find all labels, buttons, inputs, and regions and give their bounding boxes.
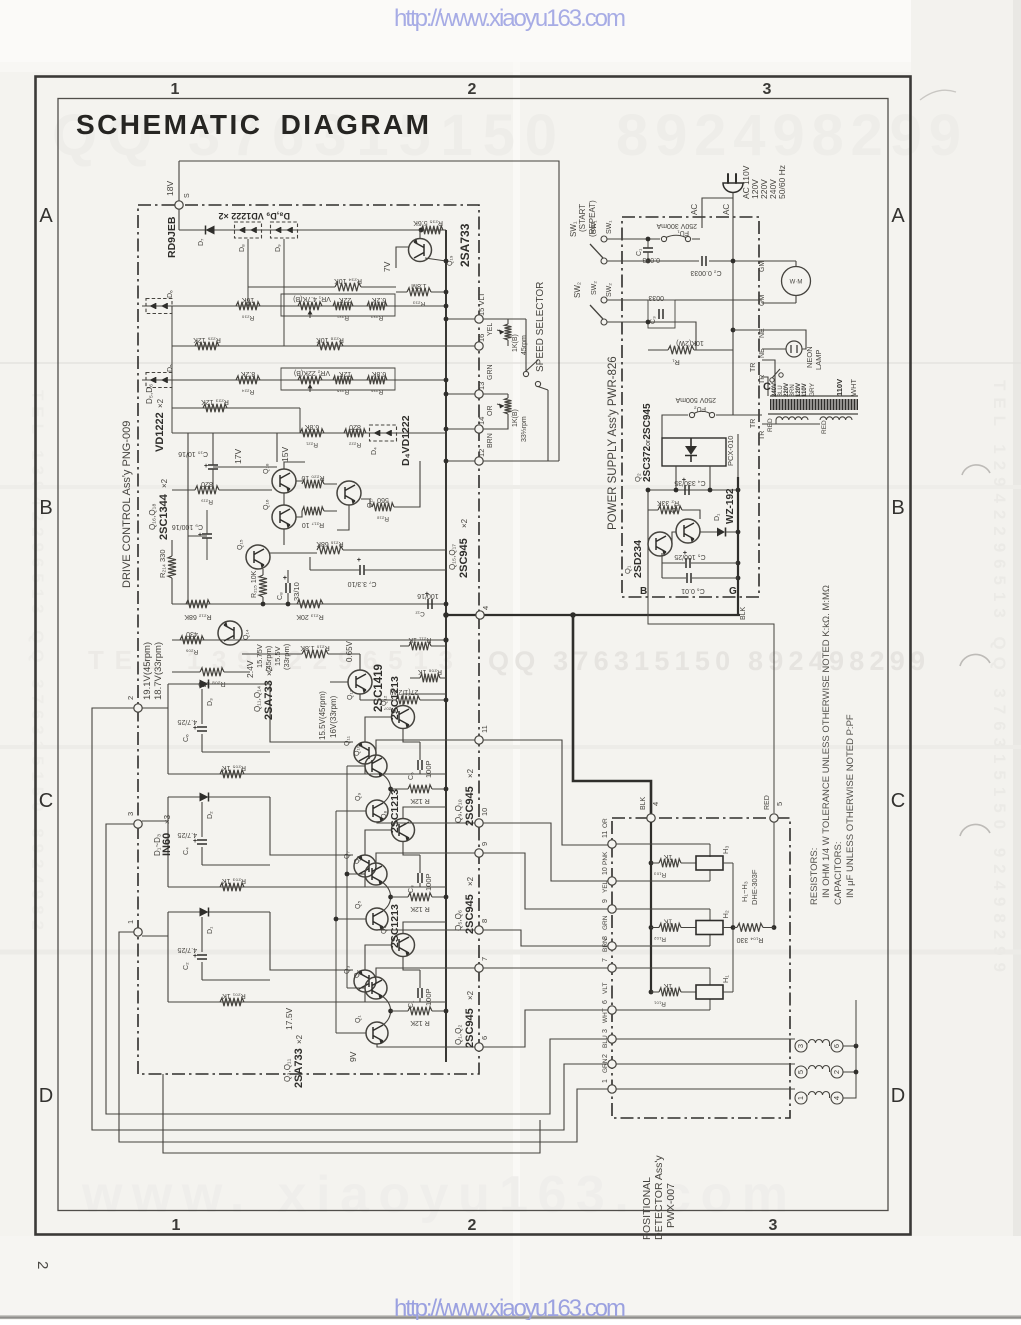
terminal 4 BLK detector — [647, 814, 655, 822]
zener D1 WZ-192 — [717, 528, 725, 537]
terminal 1 left — [134, 928, 142, 936]
terminal 15 VLT — [475, 315, 483, 323]
svg-text:6: 6 — [480, 1036, 489, 1040]
svg-text:SPEED SELECTOR: SPEED SELECTOR — [535, 282, 546, 372]
svg-text:C₂ 0.0033: C₂ 0.0033 — [690, 269, 721, 276]
resistor R224 8.2K — [236, 376, 260, 384]
svg-text:SW₁: SW₁ — [606, 220, 613, 234]
svg-text:D₆: D₆ — [167, 290, 174, 298]
svg-text:http://www.xiaoyu163.com: http://www.xiaoyu163.com — [394, 5, 626, 32]
svg-text:R₂₀₃ 1K: R₂₀₃ 1K — [222, 877, 246, 884]
svg-text:G: G — [729, 586, 737, 597]
svg-text:R₂₂₁: R₂₂₁ — [305, 441, 318, 448]
svg-text:110V: 110V — [835, 379, 844, 396]
transistor Q₆ 2SC945 — [365, 863, 387, 885]
svg-text:D₉: D₉ — [275, 244, 282, 252]
svg-text:PNK: PNK — [602, 851, 609, 865]
svg-text:H₂: H₂ — [721, 910, 730, 918]
svg-text:A: A — [891, 205, 905, 227]
svg-text:6.8K: 6.8K — [371, 370, 386, 377]
svg-text:16V(33rpm): 16V(33rpm) — [329, 695, 338, 738]
svg-text:2SC1213: 2SC1213 — [389, 789, 401, 833]
svg-text:R₂₂₄: R₂₂₄ — [241, 388, 254, 395]
hall vertical links — [709, 844, 711, 1010]
wire 9 to YEL — [483, 853, 608, 909]
svg-text:9: 9 — [602, 899, 609, 903]
wire row 640 — [172, 639, 446, 641]
svg-text:1: 1 — [172, 1217, 181, 1234]
svg-text:6: 6 — [832, 1044, 841, 1048]
svg-text:GRN: GRN — [602, 1058, 609, 1073]
svg-text:GRN: GRN — [487, 364, 494, 380]
svg-text:C: C — [763, 381, 771, 393]
diode D₂ — [200, 793, 209, 802]
motor W-M — [782, 267, 811, 296]
svg-text:+: + — [193, 953, 197, 960]
terminal 10 PNK detector — [608, 877, 616, 885]
svg-text:D: D — [891, 1085, 905, 1107]
svg-text:C: C — [39, 790, 53, 812]
svg-text:GM: GM — [759, 261, 766, 272]
svg-text:Q₅: Q₅ — [355, 901, 362, 909]
hall right pins bus — [723, 863, 733, 992]
svg-text:Q₂: Q₂ — [633, 473, 642, 482]
connector right bus — [843, 1046, 856, 1098]
svg-text:R₂₁₈: R₂₁₈ — [377, 515, 389, 522]
svg-text:6.2K: 6.2K — [371, 296, 386, 303]
svg-text:2: 2 — [602, 1054, 609, 1058]
svg-text:SW₂: SW₂ — [591, 281, 598, 295]
svg-text:3: 3 — [763, 81, 772, 98]
capacitor C1 0.033 — [643, 248, 653, 252]
thick wire to terminal 4 and power supply — [446, 614, 740, 616]
svg-text:W·M: W·M — [790, 280, 803, 286]
svg-text:+: + — [193, 838, 197, 845]
svg-text:11: 11 — [602, 831, 609, 838]
routing wire shield — [163, 1074, 540, 1153]
svg-text:R 12K: R 12K — [410, 797, 430, 804]
svg-text:16K: 16K — [241, 296, 254, 303]
svg-text:VD1222: VD1222 — [154, 412, 166, 452]
svg-text:R₁₀₁: R₁₀₁ — [653, 1000, 666, 1007]
resistor R223 12K — [203, 404, 227, 412]
resistor R₁₀₁ 1K — [659, 988, 681, 996]
svg-text:100P: 100P — [424, 988, 433, 1006]
wire neon row — [733, 330, 806, 349]
wires stage 1 transistors — [365, 694, 446, 774]
resistor R₂₀₃ 1K — [220, 883, 244, 891]
svg-text:IN OHM 1/4 W TOLERANCE UNLESS: IN OHM 1/4 W TOLERANCE UNLESS OTHERWISE … — [821, 585, 832, 898]
terminal S 18V — [175, 201, 183, 209]
wire row1 — [172, 305, 446, 307]
svg-text:B: B — [39, 497, 52, 519]
svg-text:820: 820 — [201, 480, 213, 487]
capacitor C12 100/16 — [428, 599, 432, 609]
capacitor C₅ 100P — [418, 760, 422, 770]
svg-text:SW₂: SW₂ — [606, 283, 613, 297]
svg-text:+: + — [204, 463, 208, 470]
svg-text:WZ-192: WZ-192 — [725, 488, 736, 524]
svg-text:NE: NE — [759, 348, 766, 358]
svg-text:3: 3 — [769, 1217, 778, 1234]
thick BLK bus inside detector — [650, 822, 652, 992]
transistor Q16 2SC1344 — [272, 505, 296, 529]
terminal 2 BLU detector — [608, 1060, 616, 1068]
svg-text:8.2K: 8.2K — [240, 370, 255, 377]
svg-text:33⅓rpm: 33⅓rpm — [521, 416, 528, 442]
svg-text:×2: ×2 — [466, 876, 475, 886]
wire row3 — [172, 432, 446, 434]
resistor R207 27(1/2W) — [396, 696, 420, 704]
svg-text:D₅: D₅ — [167, 364, 174, 372]
svg-text:Q₃,Q₁₁: Q₃,Q₁₁ — [283, 1058, 292, 1082]
svg-text:TEL 13942296513 QQ 376315150 8: TEL 13942296513 QQ 376315150 8924982 — [28, 390, 47, 930]
svg-text:2SC945: 2SC945 — [464, 786, 476, 826]
ac plug — [723, 183, 743, 193]
svg-text:Q₁₁: Q₁₁ — [344, 735, 351, 746]
base bus 2SC945 pairs — [347, 766, 365, 988]
svg-text:1K: 1K — [663, 982, 672, 989]
wire 11 to OR — [483, 740, 608, 845]
wire 6 to VLT — [483, 1010, 608, 1047]
transistor Q₈ 2SC1213 — [392, 819, 415, 842]
resistor R228 10K — [317, 342, 343, 350]
svg-text:4.7/25: 4.7/25 — [177, 831, 197, 838]
terminal 1 GRN detector — [608, 1085, 616, 1093]
wire S terminal drop — [178, 161, 180, 201]
resistor 12K pair — [408, 785, 432, 793]
transistor Q₅ 2SC945 — [366, 908, 388, 930]
svg-text:R₁: R₁ — [672, 358, 680, 365]
svg-text:TEL 12942296513 QQ 376315150 9: TEL 12942296513 QQ 376315150 92498299 — [990, 380, 1009, 972]
terminal 14 OR — [475, 425, 483, 433]
svg-text:12K: 12K — [338, 370, 351, 377]
wire 10 to PNK — [483, 823, 608, 881]
svg-text:R 12K: R 12K — [410, 905, 430, 912]
svg-text:R₂₁₅ 10K: R₂₁₅ 10K — [251, 570, 258, 598]
svg-text:R₂₃₅ 5.6K: R₂₃₅ 5.6K — [413, 219, 443, 226]
hall element H₁ — [696, 985, 723, 999]
svg-text:R₂₂₆: R₂₂₆ — [370, 388, 383, 395]
svg-text:FU₁: FU₁ — [677, 229, 689, 236]
resistor R2 33K — [658, 506, 682, 514]
svg-text:B: B — [640, 586, 647, 597]
wires stage 2 transistors — [365, 807, 446, 887]
svg-text:R₂₀₅ 1K: R₂₀₅ 1K — [222, 764, 246, 771]
svg-text:GRY: GRY — [809, 382, 816, 397]
svg-text:BLU: BLU — [602, 1035, 609, 1048]
svg-text:×2: ×2 — [460, 518, 469, 528]
terminal 10 — [475, 819, 483, 827]
resistor R₂₀₅ 1K — [220, 770, 244, 778]
svg-text:R₂₂₀ 10: R₂₂₀ 10 — [301, 474, 324, 481]
svg-text:QQ 376315150 892498299: QQ 376315150 892498299 — [488, 646, 925, 676]
resistor R₂₀₁ 1K — [220, 998, 244, 1006]
resistor R212 68K — [186, 600, 210, 608]
svg-text:4.7/25: 4.7/25 — [177, 946, 197, 953]
svg-text:GRN: GRN — [602, 915, 609, 930]
resistor R210 1.8K — [302, 650, 328, 658]
thick branch to detector BLK — [573, 615, 651, 814]
svg-text:2: 2 — [34, 1261, 51, 1269]
resistor 12K pair — [408, 1007, 432, 1015]
transistor Q₁₀ 2SC945 — [365, 755, 387, 777]
wire sw2 row — [607, 300, 762, 350]
wire RED column — [773, 822, 775, 928]
terminal 6 VLT detector — [608, 1006, 616, 1014]
svg-text:Q₉,Q₁₀: Q₉,Q₁₀ — [454, 799, 463, 823]
resistor R226 6.8K — [367, 376, 387, 384]
resistor 12K pair — [408, 893, 432, 901]
main vertical bus — [445, 230, 447, 1062]
resistor R216 68K — [317, 546, 343, 554]
svg-text:15.75V: 15.75V — [255, 644, 264, 668]
diode pack D6 VD1222 — [146, 299, 172, 314]
routing wire drive2 to det2 — [92, 708, 608, 1130]
svg-text:PCX-010: PCX-010 — [726, 436, 735, 466]
routing wire drive3 to det3 — [106, 824, 608, 1114]
svg-text:0033: 0033 — [648, 294, 664, 301]
transistor Q₃ 2SA733 — [354, 970, 376, 992]
switch SW2 — [601, 297, 607, 303]
wires 2SC945 pair — [376, 968, 477, 1047]
resistor R1 10K(2W) — [668, 346, 694, 354]
svg-text:2SA733: 2SA733 — [458, 223, 472, 267]
svg-text:1K: 1K — [663, 918, 672, 925]
svg-text:13: 13 — [477, 382, 486, 390]
transistor Q₄ 2SC1213 — [392, 934, 415, 957]
svg-text:1K(B): 1K(B) — [512, 409, 519, 427]
svg-text:2: 2 — [468, 1217, 477, 1234]
capacitor C9 100/16 — [202, 534, 212, 538]
svg-text:BLK: BLK — [740, 606, 747, 620]
transistor Q17 2SC945 — [337, 481, 361, 505]
selector switch contacts — [523, 371, 528, 376]
capacitor C10 10/16 — [208, 465, 218, 469]
capacitor C₃ 100P — [418, 873, 422, 883]
svg-text:110V: 110V — [802, 383, 808, 397]
diode pack D9 VD1222 — [271, 222, 298, 238]
switch SW1 — [601, 236, 607, 242]
svg-text:R₂₀₉: R₂₀₉ — [185, 648, 198, 655]
resistor R229 12K — [195, 342, 219, 350]
svg-text:NEON: NEON — [805, 346, 814, 368]
svg-text:2: 2 — [832, 1070, 841, 1074]
svg-text:3: 3 — [602, 1029, 609, 1033]
svg-text:C₅ 100/25: C₅ 100/25 — [674, 553, 705, 560]
svg-text:S: S — [184, 193, 191, 198]
diode D₃ — [200, 680, 209, 689]
svg-text:D₈: D₈ — [239, 244, 246, 252]
connector pins 1 4 — [795, 1092, 807, 1104]
wires TR to transformer — [762, 360, 775, 396]
svg-text:C₈: C₈ — [277, 592, 284, 600]
svg-text:R₂₁₂ 68K: R₂₁₂ 68K — [184, 613, 212, 620]
drive control assembly box PNG-009 — [138, 205, 479, 1074]
svg-text:IN60: IN60 — [161, 833, 173, 856]
connector coil — [809, 1092, 830, 1096]
svg-text:NE: NE — [759, 328, 766, 338]
svg-text:D₃: D₃ — [207, 698, 214, 706]
svg-text:POWER SUPPLY Assʹy PWR-826: POWER SUPPLY Assʹy PWR-826 — [607, 356, 619, 530]
terminal 8 — [475, 926, 483, 934]
svg-text:4.7/25: 4.7/25 — [177, 718, 197, 725]
terminal 8 GRN detector — [608, 942, 616, 950]
wires 2SC945 pair — [376, 853, 477, 930]
inner border frame — [58, 99, 888, 1211]
svg-text:9V: 9V — [348, 1051, 358, 1062]
svg-text:A: A — [39, 205, 53, 227]
terminal 3 left — [134, 820, 142, 828]
svg-text:VLT: VLT — [602, 983, 609, 994]
svg-text:1: 1 — [796, 1096, 805, 1100]
svg-text:2SC945: 2SC945 — [464, 1008, 476, 1048]
diode pack D4 VD1222 — [370, 425, 397, 441]
svg-text:C₂: C₂ — [183, 962, 190, 970]
svg-text:100P: 100P — [424, 873, 433, 891]
trimmer VR2 22K(B) — [298, 376, 322, 384]
svg-text:2.4V: 2.4V — [245, 660, 255, 678]
terminal 3 WHT detector — [608, 1035, 616, 1043]
resistor R217 10 — [302, 507, 324, 515]
svg-text:9: 9 — [480, 842, 489, 846]
resistor R209 430 — [180, 636, 204, 644]
svg-text:10: 10 — [602, 867, 609, 875]
svg-text:560: 560 — [377, 496, 389, 503]
positional detector assembly box PWX-007 — [612, 818, 790, 1118]
svg-text:1.8M: 1.8M — [411, 282, 427, 289]
wire 7 to BRN — [483, 967, 608, 969]
svg-text:11: 11 — [480, 725, 489, 733]
svg-text:+: + — [357, 557, 361, 564]
svg-text:18.7V(33rpm): 18.7V(33rpm) — [153, 642, 164, 700]
svg-text:C₅: C₅ — [408, 772, 415, 780]
connector row wires — [616, 1039, 795, 1089]
svg-text:C₃: C₃ — [408, 885, 415, 893]
terminal 2 left — [134, 704, 142, 712]
resistor R230 16K — [236, 302, 260, 310]
svg-text:Q₁₃: Q₁₃ — [347, 689, 354, 700]
svg-text:2SC1213: 2SC1213 — [389, 904, 401, 948]
wire 18V top rail — [179, 161, 559, 461]
rectifier PCX-010 — [662, 438, 726, 466]
svg-text:15.5V: 15.5V — [273, 646, 282, 666]
wires below rectifier — [648, 434, 738, 597]
svg-text:22K: 22K — [338, 296, 351, 303]
svg-text:Q₁₆: Q₁₆ — [263, 499, 270, 510]
svg-text:R₂₃₀: R₂₃₀ — [241, 314, 254, 321]
svg-text:×3: ×3 — [163, 814, 172, 824]
svg-text:R₁₀₂: R₁₀₂ — [653, 936, 666, 943]
svg-text:14: 14 — [477, 417, 486, 425]
svg-text:50/60 Hz: 50/60 Hz — [777, 165, 787, 199]
svg-text:4: 4 — [651, 802, 660, 806]
svg-text:RED: RED — [764, 795, 771, 810]
svg-text:SCHEMATIC DIAGRAM: SCHEMATIC DIAGRAM — [76, 109, 430, 140]
svg-text:IN μF UNLESS OTHERWISE NOTED P: IN μF UNLESS OTHERWISE NOTED P:PF — [845, 714, 856, 898]
wire B to RED 5 — [648, 597, 774, 813]
terminal 11 — [475, 736, 483, 744]
connector pins 5 2 — [795, 1066, 807, 1078]
capacitor C8 33/10 — [286, 583, 290, 593]
svg-text:15 VLT: 15 VLT — [477, 292, 486, 316]
svg-text:RED: RED — [821, 420, 828, 434]
resistor R206 1K right — [420, 674, 440, 682]
transistor Q19 2SA733 — [409, 239, 432, 262]
svg-text:Q₅,Q₆: Q₅,Q₆ — [454, 910, 463, 931]
svg-text:1K(B): 1K(B) — [512, 334, 519, 352]
oscillator stage 3 wires — [142, 912, 270, 1002]
svg-text:3: 3 — [126, 812, 135, 816]
capacitor C5 100/25 — [686, 558, 690, 568]
svg-text:SW₁: SW₁ — [569, 221, 578, 237]
svg-text:PWX-007: PWX-007 — [665, 1183, 677, 1228]
svg-text:VR₁ 4.7K(B): VR₁ 4.7K(B) — [293, 295, 331, 302]
wire to terminal 13 — [446, 393, 475, 395]
svg-text:1: 1 — [126, 920, 135, 924]
svg-text:3: 3 — [796, 1044, 805, 1048]
wire row 16 with R229 12K and R226 10K — [172, 345, 475, 347]
svg-text:7V: 7V — [382, 261, 392, 272]
transistor Q1 2SD234 — [648, 532, 672, 556]
svg-text:2SC945: 2SC945 — [458, 538, 470, 578]
diode D₁ — [200, 908, 209, 917]
connector pins 3 6 — [795, 1040, 807, 1052]
wire row R223 — [172, 407, 300, 409]
svg-text:C₁: C₁ — [636, 248, 643, 256]
svg-text:17.5V: 17.5V — [284, 1007, 294, 1030]
svg-text:RD9JEB: RD9JEB — [166, 216, 178, 258]
svg-text:×2: ×2 — [156, 398, 165, 408]
svg-text:D₂: D₂ — [207, 811, 214, 819]
svg-text:×2: ×2 — [466, 990, 475, 1000]
svg-text:Q₁₆,Q₁₈: Q₁₆,Q₁₈ — [148, 503, 157, 530]
svg-text:R₂₁₆ 68K: R₂₁₆ 68K — [316, 540, 344, 547]
svg-text:Q₁₁,Q₁₄: Q₁₁,Q₁₄ — [253, 686, 262, 712]
svg-text:4: 4 — [481, 606, 490, 610]
svg-text:BLK: BLK — [640, 796, 647, 810]
resistor R213 20K — [297, 600, 323, 608]
svg-text:Q₆: Q₆ — [354, 856, 361, 864]
terminal 6 — [475, 1043, 483, 1051]
svg-text:TR: TR — [759, 431, 766, 440]
transistor Q₇ 2SA733 — [354, 855, 376, 877]
transistor Q13 2SC1419 — [348, 670, 372, 694]
svg-text:Q₉: Q₉ — [355, 793, 362, 801]
svg-text:D₈,D₉ VD1222 ×2: D₈,D₉ VD1222 ×2 — [218, 211, 290, 221]
svg-text:19.1V(45rpm): 19.1V(45rpm) — [142, 642, 153, 700]
svg-text:(33rpm): (33rpm) — [282, 643, 291, 670]
svg-text:R₂₂₂: R₂₂₂ — [348, 441, 361, 448]
svg-text:BRN: BRN — [487, 433, 494, 448]
terminal 9 YEL detector — [608, 905, 616, 913]
outer border frame — [36, 77, 911, 1235]
resistor R104 330 — [737, 923, 763, 931]
svg-text:R₂₀₁ 1K: R₂₀₁ 1K — [222, 992, 246, 999]
svg-text:430: 430 — [186, 630, 198, 637]
connector coil — [809, 1066, 830, 1070]
wire diode row — [179, 209, 446, 230]
svg-text:C: C — [891, 790, 905, 812]
svg-text:Q₂: Q₂ — [354, 970, 361, 978]
routing wire drive1 to det1 — [119, 932, 608, 1142]
terminal 11 OR detector — [608, 840, 616, 848]
svg-text:100P: 100P — [424, 760, 433, 778]
svg-text:+: + — [283, 575, 287, 582]
trimmer VR1 4.7K(B) — [298, 302, 322, 310]
svg-text:R₂₁₉: R₂₁₉ — [201, 498, 213, 505]
terminal 4 on drive box — [476, 611, 484, 619]
